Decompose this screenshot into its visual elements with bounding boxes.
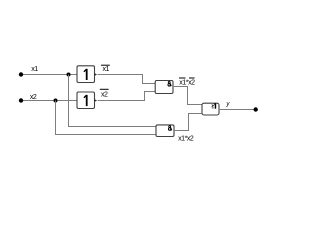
svg-text:x1*x2: x1*x2 — [178, 136, 194, 143]
wire x2 input — [21, 100, 77, 102]
wire x2 branch down to AND2 — [56, 101, 157, 135]
AND gate U4 (bottom, inputs x1 x2) — [156, 125, 174, 137]
wire x1 input — [21, 74, 77, 76]
label /x2 (x2 inverted) — [100, 89, 109, 98]
node junction on x2 wire — [54, 99, 58, 103]
OR gate U5 (">=1") — [202, 103, 219, 115]
label /x1 (x1 inverted) — [101, 65, 110, 73]
inverter U2 (NOT gate "1") — [77, 92, 97, 109]
wire OR output — [219, 109, 256, 111]
node junction on x1 wire — [67, 73, 71, 77]
inverter U1 (NOT gate "1") — [77, 66, 97, 83]
wire NOT1 output to AND1 input A — [98, 75, 156, 84]
svg-text:x1: x1 — [31, 66, 38, 73]
node x1 input terminal — [19, 72, 23, 76]
node y output terminal — [254, 107, 258, 111]
node x2 input terminal — [19, 98, 23, 102]
svg-text:x1: x1 — [103, 66, 110, 73]
wire x1 branch down to AND2 — [69, 75, 157, 127]
svg-text:x1*x2: x1*x2 — [179, 79, 195, 86]
AND gate U3 (top, inputs /x1 /x2) — [155, 81, 173, 94]
wire NOT2 output to AND1 input B — [98, 92, 156, 101]
svg-text:x2: x2 — [101, 91, 108, 98]
svg-text:x2: x2 — [30, 94, 37, 101]
label /x1*/x2 — [179, 78, 195, 86]
wire AND2 output to OR input B — [174, 114, 202, 131]
wire AND1 output to OR input A — [173, 87, 202, 105]
